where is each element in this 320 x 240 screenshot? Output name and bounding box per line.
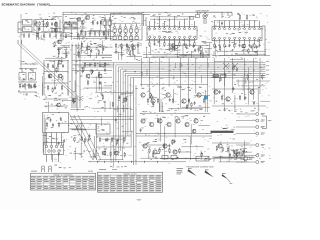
resistor R8 [179,42,180,47]
resistor R90 [124,152,125,157]
resistor R63 [58,50,59,55]
wire [212,143,250,157]
resistor R15 [244,43,245,48]
wire [121,49,123,54]
wire [36,23,38,34]
wire [90,156,96,158]
wire [70,109,84,111]
capacitor C6 [37,33,39,38]
node value labels [225,41,259,53]
node value labels [157,41,204,58]
resistor R20 [34,83,35,88]
resistor R87 [73,99,74,104]
wire [149,46,151,55]
resistor R27 [104,62,105,67]
wire [117,106,119,112]
node value labels [222,67,263,112]
capacitor C19 [108,31,110,36]
resistor R69 [130,51,131,56]
wire [96,53,98,58]
wire [104,17,106,40]
wire [123,71,265,146]
wire [41,31,62,33]
node label cluster [45,135,59,139]
wire [224,49,226,56]
capacitor C7 [43,33,45,38]
wire [106,27,108,41]
resistor R58 [103,31,104,36]
capacitor C62 [92,70,94,74]
transistor Q11 [197,93,201,97]
node label cluster [151,157,187,160]
node label cluster [25,69,33,71]
wire [182,106,210,108]
transistor Q16 [114,151,118,155]
wire [189,42,191,48]
component X13 [196,12,200,17]
component X11 [135,24,138,34]
resistor R85 [102,95,103,100]
wire [76,55,112,57]
wire [209,43,211,55]
module box M2 [19,73,26,81]
resistor R104 [77,125,78,130]
resistor R4 [92,20,93,25]
resistor R30 [157,98,158,103]
resistor R57 [83,19,84,24]
capacitor C56 [57,48,59,52]
wire [94,153,96,158]
node label cluster [153,14,184,16]
wire [175,54,192,56]
wire [143,57,210,59]
wire [121,146,123,160]
wire [235,53,266,55]
transistor Q33 [171,44,175,48]
node label cluster [49,60,62,62]
wire [104,19,112,21]
wire [70,128,96,130]
wire [212,55,270,57]
wire [19,69,37,73]
component X2 [108,17,112,28]
wire [173,89,175,103]
wire [181,146,203,148]
resistor R105 [81,136,82,141]
wire [118,67,265,156]
resistor R19 [24,83,25,88]
wire [44,119,46,154]
wire [78,115,101,160]
wire [220,156,222,163]
connector pin P5 [236,144,265,147]
wire [62,12,64,40]
capacitor C41 [117,138,119,142]
resistor R49 [132,43,133,48]
wire [204,90,206,112]
wire [252,44,254,52]
node arrow labels [188,168,226,173]
wire [82,62,114,64]
capacitor C74 [115,118,117,122]
node value labels [65,16,107,38]
wire [237,80,239,85]
transistor Q1 [54,23,58,27]
resistor R50 [137,43,138,48]
node scattered value labels 3 [76,98,132,112]
wire [43,25,45,31]
capacitor C46 [55,28,57,32]
wire [33,19,35,32]
transistor Q34 [242,44,246,48]
capacitor C39 [52,123,54,127]
node bus labels [266,61,269,74]
transistor Q23 [194,119,198,123]
wire [140,84,208,86]
wire [77,20,79,40]
capacitor C2 [43,22,45,26]
capacitor C49 [193,44,195,48]
wire [196,12,232,16]
wire [114,63,266,166]
wire [77,43,79,58]
wire [45,57,66,59]
resistor R23 [47,85,48,90]
component X10 [130,34,133,40]
resistor R26 [94,62,95,67]
wire [70,115,93,160]
resistor R38 [99,137,100,142]
component X21 [48,166,51,172]
resistor R51 [200,50,201,55]
resistor R89 [237,152,238,157]
wire [89,30,101,32]
wire [231,58,233,93]
node scattered value labels 2 [149,61,265,80]
wire [174,42,176,48]
capacitor C68 [253,101,255,105]
capacitor C55 [250,45,252,49]
resistor R22 [57,63,58,68]
wire [213,157,215,163]
wire [144,14,147,26]
wire [241,85,266,87]
wire [200,150,202,160]
wire [222,12,228,18]
capacitor C83 [63,139,65,143]
wire [195,58,197,94]
capacitor C66 [219,90,221,94]
connector pin P1 [236,113,265,116]
transistor Q4 [58,74,62,78]
wire [44,72,68,84]
resistor R43 [169,148,170,153]
transistor Q26 [163,144,167,148]
transistor Q10 [182,99,186,103]
connector pin P4 [236,132,265,135]
resistor R92 [110,151,111,156]
capacitor C4 [23,33,25,38]
resistor R13 [224,43,225,48]
wire [159,118,161,142]
wire [132,49,134,54]
resistor R83 [247,74,248,79]
node label cluster [75,63,106,67]
resistor R56 [69,21,70,26]
wire [235,150,237,158]
capacitor C86 [88,138,90,142]
capacitor C32 [52,64,54,68]
wire [174,63,176,68]
node value labels [35,18,54,40]
component X16 [221,75,227,78]
transistor Q42 [192,129,196,133]
transistor Q36 [86,46,90,50]
wire [176,47,178,58]
resistor R36 [46,122,47,127]
wire [102,41,104,55]
wire [164,126,166,160]
wire [190,124,192,144]
capacitor C70 [125,97,127,101]
resistor R17 [28,83,29,88]
wire [134,55,136,60]
wire [150,17,196,19]
wire [252,58,254,100]
capacitor C40 [105,138,107,142]
wire [86,43,88,54]
capacitor C45 [36,21,38,25]
transistor Q9 [166,93,170,97]
node value labels [90,94,127,110]
wire [160,99,162,112]
capacitor C28 [259,44,261,48]
wire [256,50,258,56]
resistor R99 [222,147,223,152]
wire [212,88,258,90]
node fine-print haze [18,12,271,163]
capacitor C26 [239,44,241,48]
node bracket label [268,120,272,123]
node label cluster [45,16,56,19]
resistor R46 [115,43,116,48]
wire [121,93,133,95]
component X14 [190,17,193,20]
wire [47,133,62,146]
wire [219,50,266,52]
wire [190,51,192,58]
node rule-ticks [110,4,232,7]
resistor R76 [153,101,154,106]
resistor R16 [254,43,255,48]
wire [50,4,272,6]
wire [54,60,56,86]
wire [101,118,103,126]
wire [149,96,157,98]
wire [60,60,69,62]
node label cluster [99,149,120,153]
resistor R77 [186,104,187,109]
wire [45,60,57,62]
capacitor C5 [28,33,30,38]
component X1 [103,17,107,28]
transistor Q8 [151,99,155,103]
node LAMP GROUP label [195,9,209,12]
wire [161,102,163,112]
capacitor C69 [232,87,234,91]
node arrow 2 [205,170,214,177]
wire [20,63,38,65]
coil L1 [65,22,78,25]
component X9 [130,24,133,34]
wire [100,21,102,30]
resistor R42 [159,148,160,153]
wire [63,11,196,13]
wire [112,23,140,25]
node label cluster [23,94,37,96]
wire [101,63,110,65]
transistor Q37 [132,46,136,50]
resistor R81 [262,74,263,79]
wire [130,78,265,132]
capacitor C16 [94,31,96,36]
wire [73,153,82,155]
wire [262,26,265,56]
transistor Q15 [102,151,106,155]
node label cluster [94,43,108,47]
transistor Q12 [214,90,218,94]
resistor R33 [203,98,204,103]
wire [242,158,252,160]
capacitor C53 [215,45,217,49]
capacitor C64 [194,101,196,105]
wire [72,60,112,62]
wire [74,80,76,92]
wire [98,54,112,56]
wire [60,20,64,33]
wire [234,95,236,112]
wire [188,58,190,107]
module box M4 [43,113,69,133]
capacitor C17 [99,31,101,36]
node value labels [141,117,203,154]
wire [260,100,270,102]
capacitor C13 [80,31,82,36]
wire [72,70,112,72]
wire [168,107,203,109]
transistor Q13 [226,97,230,101]
wire [20,14,22,70]
wire [73,97,75,109]
capacitor C60 [49,75,51,79]
wire [207,58,209,104]
resistor R91 [116,140,117,145]
resistor R9 [194,42,195,47]
capacitor C12 [97,21,99,25]
transistor Q40 [57,103,61,107]
wire [51,147,53,160]
wire [179,63,181,69]
transistor Q19 [158,119,162,123]
wire [98,158,123,160]
capacitor C22 [184,42,186,46]
capacitor C3 [51,22,53,26]
capacitor C79 [229,153,231,157]
resistor R41 [149,148,150,153]
wire [148,153,150,159]
wire [214,157,240,159]
capacitor C51 [194,49,196,53]
wire [118,44,142,46]
resistor R84 [219,77,220,82]
component X20 [41,166,44,172]
node label cluster [145,106,202,112]
wire [140,157,199,159]
capacitor C77 [168,144,170,148]
wire [257,87,259,112]
wire [35,32,37,41]
wire [122,131,133,133]
resistor R32 [188,98,189,103]
wire [62,100,74,102]
capacitor C14 [85,31,87,36]
node label cluster [217,49,257,54]
wire [116,65,266,161]
capacitor C29 [33,84,35,88]
wire [53,16,63,18]
wire [18,32,70,34]
wire [224,73,226,76]
wire [44,99,68,106]
resistor R72 [56,67,57,72]
resistor R47 [121,43,122,48]
transistor Q17 [141,119,145,123]
wire [123,105,125,112]
wire [159,42,161,48]
resistor R82 [233,65,234,70]
resistor R11 [246,15,247,20]
node label cluster [55,165,72,169]
node value labels [219,148,247,159]
wire [52,27,56,33]
capacitor C81 [60,117,62,121]
wire [88,30,112,32]
node label cluster [21,61,35,64]
wire [67,89,69,96]
connector pin P3 [236,126,265,129]
transistor Q28 [218,144,222,148]
wire [101,138,123,140]
wire [101,82,103,92]
wire [110,141,112,160]
resistor R45 [227,147,228,152]
resistor R100 [216,146,217,151]
node label cluster [51,100,63,106]
wire [207,63,209,68]
wire [90,28,92,34]
resistor R59 [186,44,187,49]
capacitor C58 [102,47,104,51]
capacitor C15 [89,31,91,36]
capacitor C33 [62,64,64,68]
node IC2 label [226,32,248,34]
wire [230,58,244,60]
capacitor C73 [107,138,109,142]
node value labels [70,123,91,154]
node label cluster [162,116,206,119]
component X3 [113,24,116,34]
wire [62,52,70,54]
